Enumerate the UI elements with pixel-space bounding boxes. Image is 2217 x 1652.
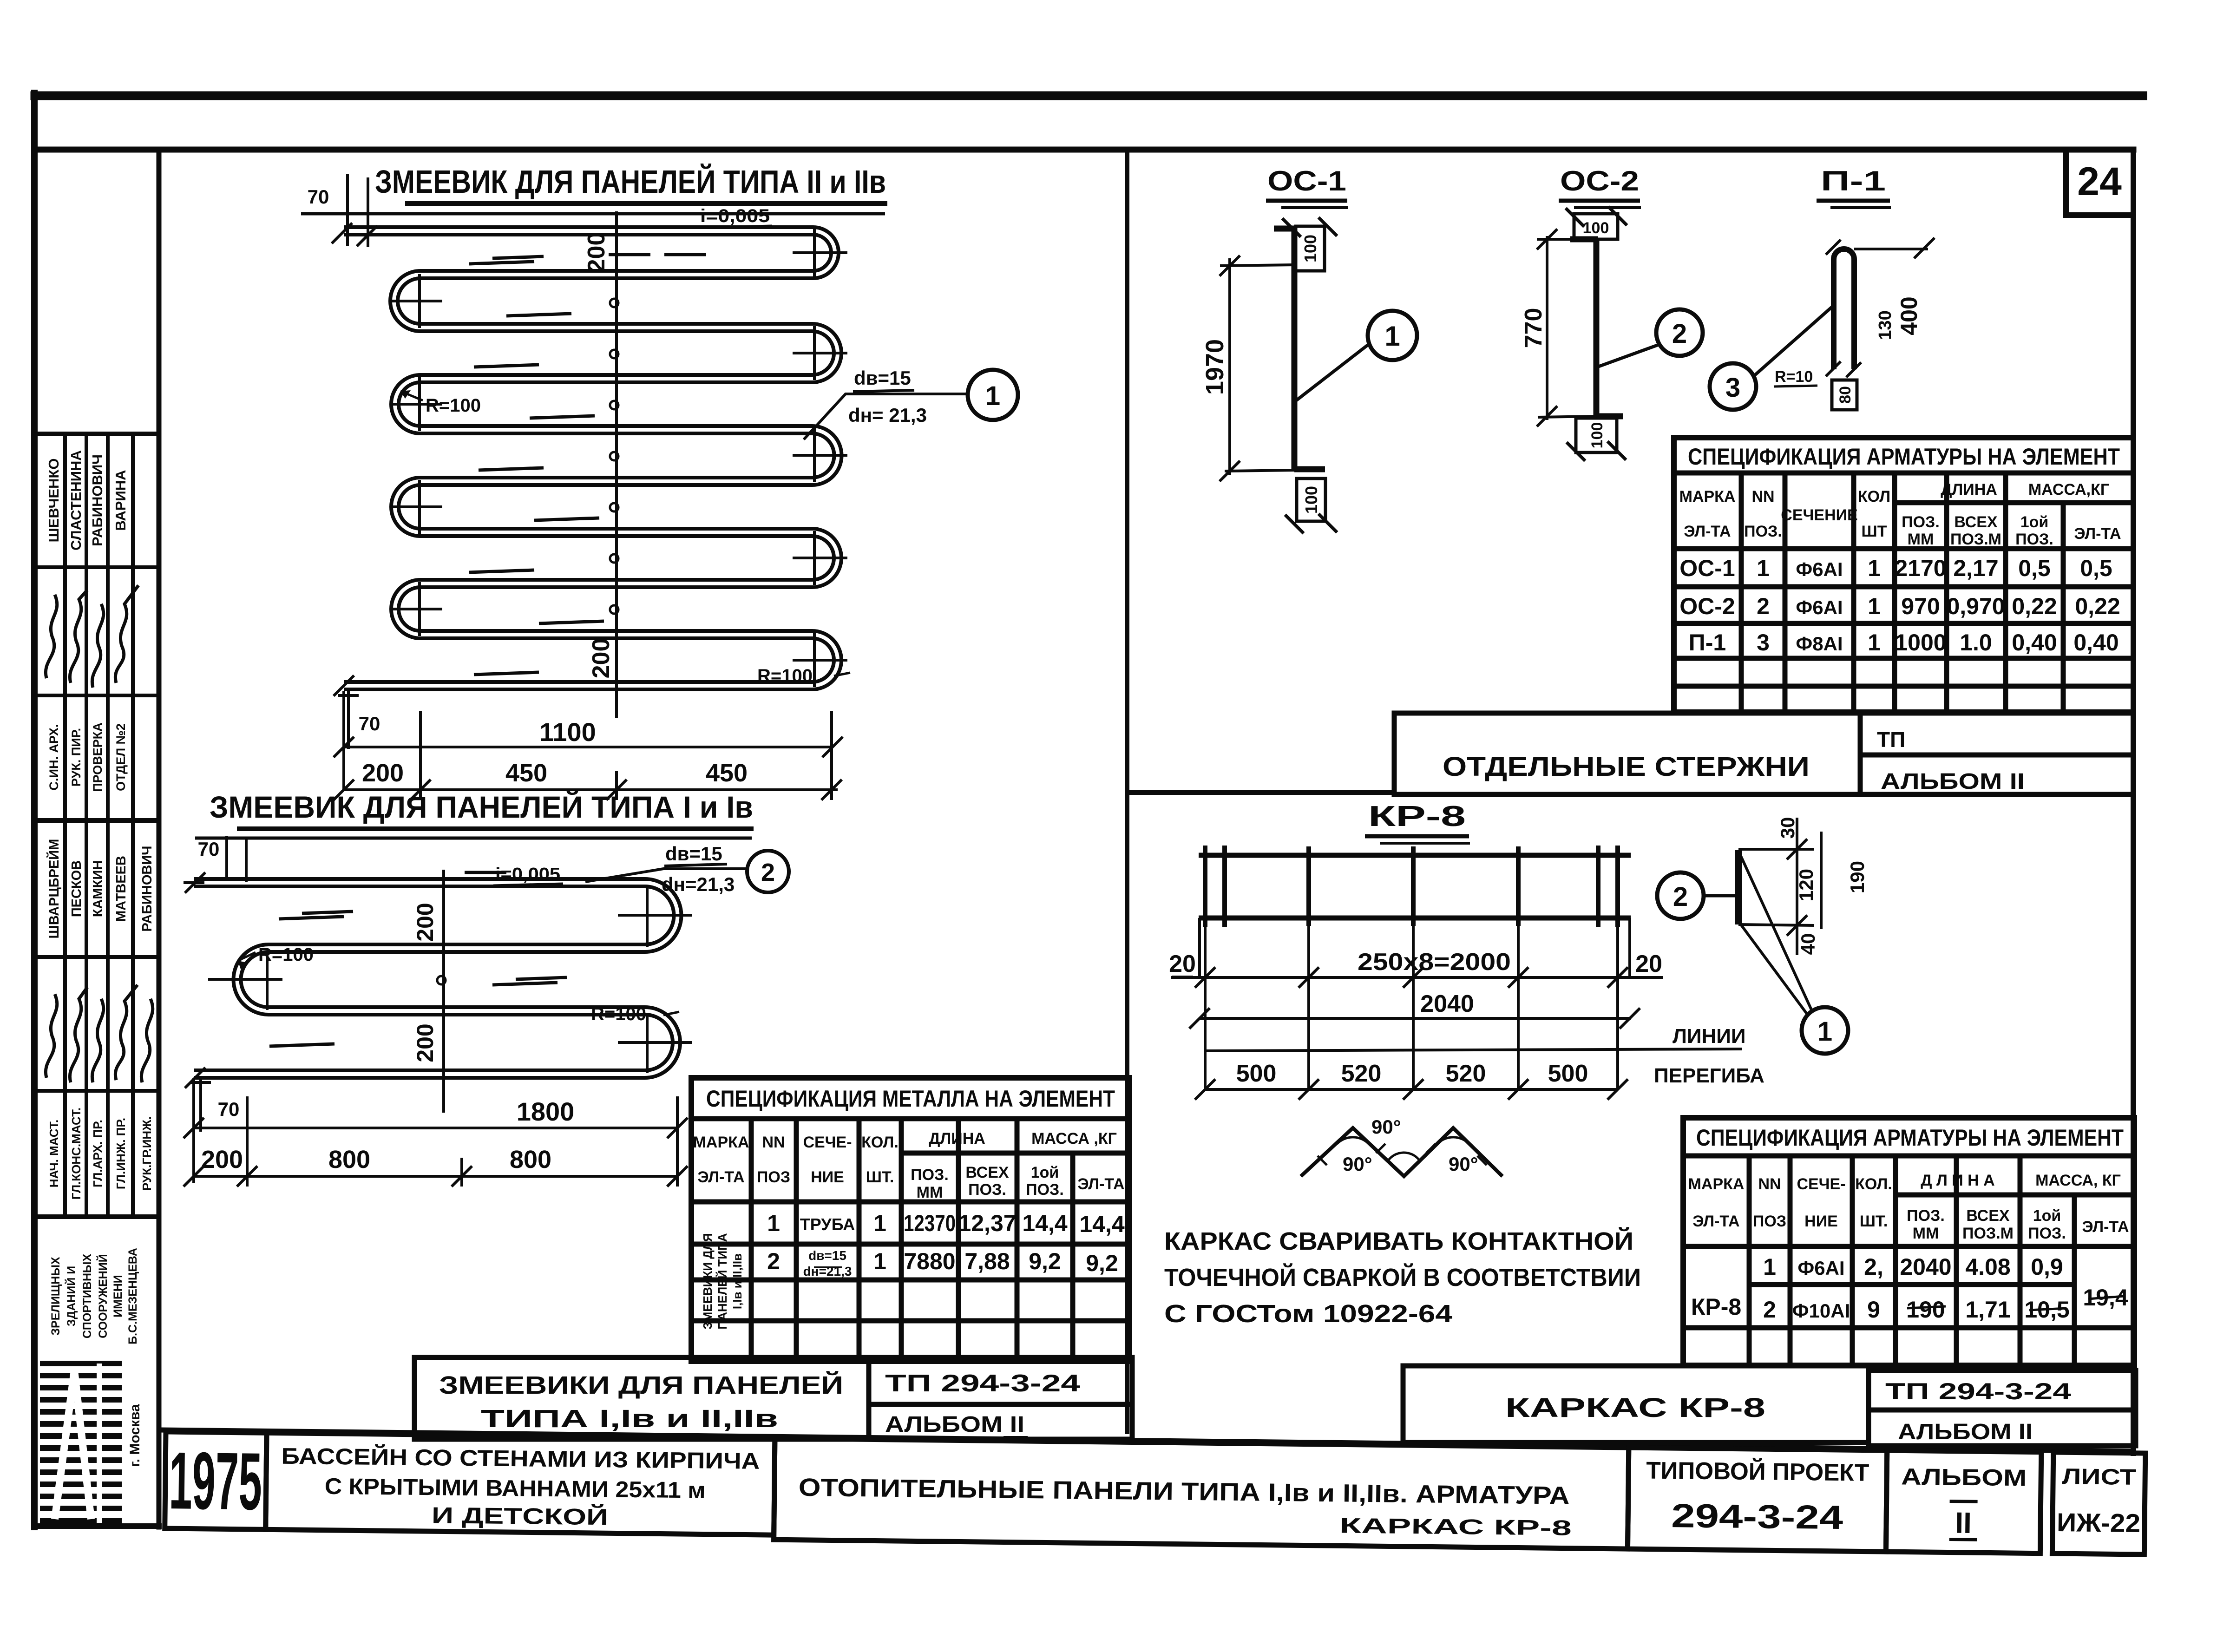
heating panels title box xyxy=(774,1438,1629,1549)
OC-2 dimension 770 xyxy=(1537,229,1596,426)
svg-text:КАРКАС КР-8: КАРКАС КР-8 xyxy=(1339,1513,1572,1540)
sheet left border xyxy=(31,93,38,1527)
svg-text:ПАНЕЛЕЙ ТИПА: ПАНЕЛЕЙ ТИПА xyxy=(715,1233,729,1329)
svg-text:С КРЫТЫМИ ВАННАМИ 25х11 м: С КРЫТЫМИ ВАННАМИ 25х11 м xyxy=(324,1474,706,1503)
svg-text:40: 40 xyxy=(1797,933,1819,955)
svg-text:R=100: R=100 xyxy=(258,944,314,965)
album box xyxy=(1886,1450,2041,1554)
svg-text:КАРКАС КР-8: КАРКАС КР-8 xyxy=(1505,1393,1765,1423)
svg-text:2: 2 xyxy=(767,1248,780,1274)
dimension line 1100 xyxy=(334,691,843,790)
svg-text:2: 2 xyxy=(1673,882,1688,912)
KR-8 dim line 2040 xyxy=(1189,1008,1640,1029)
svg-text:ИЖ-22: ИЖ-22 xyxy=(2057,1508,2141,1538)
institute logo hatched emblem xyxy=(40,1364,122,1521)
svg-text:МАТВЕЕВ: МАТВЕЕВ xyxy=(114,856,129,922)
sheet number box 24 xyxy=(2066,150,2133,215)
institute name rotated block xyxy=(49,1248,139,1344)
basin title box xyxy=(266,1433,775,1535)
KR-8 dim line 250x8=2000 with 20 20 xyxy=(1171,967,1663,988)
frame right border xyxy=(2131,150,2136,1453)
svg-text:МАРКА: МАРКА xyxy=(1688,1175,1745,1193)
KR-8 outline projection box xyxy=(1200,918,1630,1089)
svg-text:200: 200 xyxy=(201,1146,243,1173)
svg-text:КОЛ: КОЛ xyxy=(1858,488,1890,505)
svg-text:450: 450 xyxy=(505,759,547,787)
svg-text:90°: 90° xyxy=(1371,1116,1401,1138)
svg-text:2: 2 xyxy=(761,859,775,886)
svg-text:100: 100 xyxy=(1588,422,1606,449)
svg-text:0,22: 0,22 xyxy=(2075,593,2120,619)
svg-text:ММ: ММ xyxy=(917,1184,943,1201)
svg-text:ЭЛ-ТА: ЭЛ-ТА xyxy=(697,1168,744,1186)
svg-text:ЗМЕЕВИКИ ДЛЯ ПАНЕЛЕЙ: ЗМЕЕВИКИ ДЛЯ ПАНЕЛЕЙ xyxy=(439,1371,843,1399)
svg-text:ПОЗ.: ПОЗ. xyxy=(968,1181,1006,1199)
svg-text:НИЕ: НИЕ xyxy=(811,1168,844,1186)
svg-text:МАРКА: МАРКА xyxy=(693,1134,749,1151)
signature strip divider xyxy=(157,150,162,1527)
bottom title strip (tilted like the scan) xyxy=(165,1432,2145,1554)
svg-text:520: 520 xyxy=(1341,1060,1382,1087)
svg-text:СПЕЦИФИКАЦИЯ МЕТАЛЛА НА ЭЛЕМЕН: СПЕЦИФИКАЦИЯ МЕТАЛЛА НА ЭЛЕМЕНТ xyxy=(706,1086,1115,1112)
svg-text:2,17: 2,17 xyxy=(1953,555,1998,581)
svg-text:БАССЕЙН СО СТЕНАМИ ИЗ КИРПИЧА: БАССЕЙН СО СТЕНАМИ ИЗ КИРПИЧА xyxy=(281,1443,760,1474)
svg-text:770: 770 xyxy=(1520,308,1547,348)
svg-text:200: 200 xyxy=(588,638,615,679)
svg-text:ТОЧЕЧНОЙ СВАРКОЙ В СООТВЕТСТВИ: ТОЧЕЧНОЙ СВАРКОЙ В СООТВЕТСТВИИ xyxy=(1164,1263,1641,1291)
svg-text:1: 1 xyxy=(767,1210,780,1236)
svg-text:1: 1 xyxy=(1817,1016,1832,1047)
metal table data rows xyxy=(767,1210,1125,1278)
svg-text:9,2: 9,2 xyxy=(1029,1248,1061,1274)
svg-text:970: 970 xyxy=(1901,593,1940,619)
svg-text:СЕЧЕ-: СЕЧЕ- xyxy=(803,1134,852,1151)
svg-text:ПРОВЕРКА: ПРОВЕРКА xyxy=(91,722,105,792)
svg-text:12370: 12370 xyxy=(904,1210,956,1236)
svg-text:Ф10АI: Ф10АI xyxy=(1792,1300,1850,1322)
svg-text:ОТДЕЛЬНЫЕ СТЕРЖНИ: ОТДЕЛЬНЫЕ СТЕРЖНИ xyxy=(1443,752,1810,782)
svg-text:1: 1 xyxy=(985,381,1000,411)
svg-text:24: 24 xyxy=(2077,159,2122,204)
svg-text:ГЛ.КОНС.МАСТ.: ГЛ.КОНС.МАСТ. xyxy=(69,1108,83,1200)
svg-text:ПОЗ.: ПОЗ. xyxy=(2028,1225,2066,1242)
KR-8 detail callout circle 2 xyxy=(1703,894,1737,898)
svg-text:РУК.ГР.ИНЖ.: РУК.ГР.ИНЖ. xyxy=(140,1116,154,1191)
svg-text:70: 70 xyxy=(308,186,329,208)
svg-text:ВАРИНА: ВАРИНА xyxy=(112,470,129,531)
welding note text xyxy=(1164,1227,1641,1328)
svg-text:АЛЬБОМ II: АЛЬБОМ II xyxy=(1898,1420,2033,1444)
svg-text:РУК. ПИР.: РУК. ПИР. xyxy=(69,728,83,787)
svg-text:R=10: R=10 xyxy=(1775,368,1813,386)
svg-text:ММ: ММ xyxy=(1908,531,1934,548)
svg-text:1,71: 1,71 xyxy=(1965,1297,2010,1323)
KR-8 dim line 500 520 520 500 xyxy=(1195,1049,1742,1100)
svg-text:500: 500 xyxy=(1236,1060,1277,1087)
svg-text:ОТДЕЛ №2: ОТДЕЛ №2 xyxy=(114,723,128,791)
P-1 callout circle 3 xyxy=(1752,307,1832,377)
svg-text:КР-8: КР-8 xyxy=(1691,1294,1741,1320)
svg-text:ПОЗ.М: ПОЗ.М xyxy=(1950,531,2001,548)
svg-text:0,22: 0,22 xyxy=(2012,593,2057,619)
svg-text:АЛЬБОМ II: АЛЬБОМ II xyxy=(885,1412,1024,1437)
svg-text:250х8=2000: 250х8=2000 xyxy=(1358,949,1511,976)
svg-text:1.0: 1.0 xyxy=(1960,629,1992,656)
svg-text:II: II xyxy=(1955,1506,1972,1540)
svg-text:7880: 7880 xyxy=(904,1248,955,1274)
svg-text:ТП 294-3-24: ТП 294-3-24 xyxy=(1885,1378,2071,1404)
KR-8 frame long bar 2 xyxy=(1199,916,1631,921)
svg-text:1000: 1000 xyxy=(1895,629,1946,656)
svg-text:80: 80 xyxy=(1837,386,1854,404)
svg-text:ПОЗ.М: ПОЗ.М xyxy=(1962,1225,2014,1242)
svg-text:ПЕСКОВ: ПЕСКОВ xyxy=(69,860,84,917)
svg-text:ММ: ММ xyxy=(1913,1225,1939,1242)
signature scribbles block 2 xyxy=(46,585,138,688)
typovoy proekt box xyxy=(1627,1448,1887,1552)
svg-text:1ой: 1ой xyxy=(1031,1164,1059,1181)
svg-text:dн= 21,3: dн= 21,3 xyxy=(848,404,927,426)
svg-text:70: 70 xyxy=(359,713,380,734)
svg-text:1: 1 xyxy=(873,1248,886,1274)
svg-text:1: 1 xyxy=(1868,555,1881,581)
svg-text:СПЕЦИФИКАЦИЯ АРМАТУРЫ НА ЭЛЕМЕ: СПЕЦИФИКАЦИЯ АРМАТУРЫ НА ЭЛЕМЕНТ xyxy=(1688,444,2120,470)
svg-text:30: 30 xyxy=(1777,817,1798,839)
svg-text:С ГОСТом 10922-64: С ГОСТом 10922-64 xyxy=(1164,1300,1452,1328)
KR-8 cross rods xyxy=(1205,846,1618,927)
svg-text:20: 20 xyxy=(1169,951,1196,977)
svg-text:9,2: 9,2 xyxy=(1086,1250,1118,1276)
svg-text:130: 130 xyxy=(1876,310,1895,340)
svg-text:И ДЕТСКОЙ: И ДЕТСКОЙ xyxy=(432,1502,609,1530)
svg-text:СЕЧЕ-: СЕЧЕ- xyxy=(1797,1175,1845,1193)
svg-text:СЕЧЕНИЕ: СЕЧЕНИЕ xyxy=(1781,506,1857,524)
svg-text:ПЕРЕГИБА: ПЕРЕГИБА xyxy=(1654,1064,1764,1087)
svg-text:2040: 2040 xyxy=(1900,1254,1951,1280)
individual rods title box xyxy=(1394,713,2133,794)
svg-text:МАССА, КГ: МАССА, КГ xyxy=(2035,1172,2121,1189)
svg-text:ВСЕХ: ВСЕХ xyxy=(965,1164,1009,1181)
svg-text:800: 800 xyxy=(328,1146,370,1173)
svg-text:МАССА ,КГ: МАССА ,КГ xyxy=(1031,1130,1117,1147)
svg-text:Д Л И Н А: Д Л И Н А xyxy=(1921,1172,1994,1189)
svg-text:NN: NN xyxy=(1758,1175,1781,1193)
signature strip rotated names block 1 xyxy=(46,450,129,551)
svg-text:ЗМЕЕВИКИ ДЛЯ: ЗМЕЕВИКИ ДЛЯ xyxy=(701,1233,715,1329)
serpentine II pipe (double wall) xyxy=(344,231,838,686)
inner frame top line xyxy=(34,147,2133,153)
svg-text:ПОЗ: ПОЗ xyxy=(1753,1213,1786,1230)
svg-text:3: 3 xyxy=(1757,629,1770,656)
svg-text:400: 400 xyxy=(1896,296,1922,335)
P-1 80 box label xyxy=(1832,380,1857,410)
svg-text:294-3-24: 294-3-24 xyxy=(1671,1497,1843,1536)
signature strip tables xyxy=(34,434,159,1217)
svg-text:1: 1 xyxy=(1384,321,1400,352)
svg-text:dв=15: dв=15 xyxy=(808,1248,846,1263)
svg-text:0,9: 0,9 xyxy=(2031,1254,2063,1280)
svg-text:П-1: П-1 xyxy=(1821,165,1886,197)
svg-text:1ой: 1ой xyxy=(2020,513,2049,531)
svg-text:ИМЕНИ: ИМЕНИ xyxy=(112,1275,125,1318)
svg-text:2: 2 xyxy=(1763,1297,1776,1323)
svg-text:ЗМЕЕВИК ДЛЯ ПАНЕЛЕЙ ТИПА I: ЗМЕЕВИК ДЛЯ ПАНЕЛЕЙ ТИПА I и Iв xyxy=(210,789,753,824)
OC-1 callout circle 1 xyxy=(1296,343,1371,400)
svg-text:НАЧ. МАСТ.: НАЧ. МАСТ. xyxy=(47,1120,61,1187)
svg-text:ГЛ.АРХ. ПР.: ГЛ.АРХ. ПР. xyxy=(91,1120,105,1187)
KR-8 frame long bar 1 xyxy=(1199,853,1631,858)
svg-text:2: 2 xyxy=(1757,593,1770,619)
svg-text:КОЛ.: КОЛ. xyxy=(1855,1175,1892,1193)
svg-text:1: 1 xyxy=(1757,555,1770,581)
svg-text:450: 450 xyxy=(706,759,748,787)
svg-text:ДЛИНА: ДЛИНА xyxy=(929,1130,985,1147)
svg-text:NN: NN xyxy=(1751,488,1774,505)
svg-text:КАРКАС СВАРИВАТЬ КОНТАКТНОЙ: КАРКАС СВАРИВАТЬ КОНТАКТНОЙ xyxy=(1164,1227,1633,1255)
svg-text:190: 190 xyxy=(1846,861,1868,893)
svg-text:4.08: 4.08 xyxy=(1965,1254,2010,1280)
svg-text:ПОЗ.: ПОЗ. xyxy=(1744,523,1782,540)
armature specification table (top right) xyxy=(1674,438,2133,712)
svg-text:МАРКА: МАРКА xyxy=(1679,488,1736,505)
OC-1 length dimension 1970 xyxy=(1220,256,1296,481)
svg-text:70: 70 xyxy=(198,838,220,860)
svg-text:I,Iв и II,IIв: I,Iв и II,IIв xyxy=(730,1253,744,1309)
svg-text:ЭЛ-ТА: ЭЛ-ТА xyxy=(2082,1218,2129,1236)
svg-text:0,40: 0,40 xyxy=(2073,629,2119,656)
left title box: serpentines for panels xyxy=(414,1357,1132,1439)
svg-text:ЭЛ-ТА: ЭЛ-ТА xyxy=(1077,1175,1124,1193)
svg-text:200: 200 xyxy=(362,759,404,787)
svg-text:2: 2 xyxy=(1672,319,1687,349)
sheet outer top border xyxy=(35,92,2143,100)
svg-text:ОС-1: ОС-1 xyxy=(1679,555,1735,581)
svg-text:90°: 90° xyxy=(1343,1153,1372,1175)
svg-text:dн=21,3: dн=21,3 xyxy=(803,1264,852,1278)
svg-text:dн=21,3: dн=21,3 xyxy=(662,873,735,895)
svg-text:ТП: ТП xyxy=(1877,728,1905,752)
svg-text:R=100: R=100 xyxy=(591,1004,646,1024)
svg-text:9: 9 xyxy=(1867,1297,1880,1323)
element OC-1 bar drawing xyxy=(1274,227,1325,470)
svg-text:НИЕ: НИЕ xyxy=(1804,1213,1838,1230)
svg-text:1: 1 xyxy=(1763,1254,1776,1280)
serpentine I bend axis crosses xyxy=(208,886,692,1073)
svg-text:ТРУБА: ТРУБА xyxy=(800,1215,855,1234)
svg-text:ОС-2: ОС-2 xyxy=(1560,165,1639,197)
svg-text:ШВАРЦБРЕЙМ: ШВАРЦБРЕЙМ xyxy=(46,839,62,939)
serpentine I center dimension line xyxy=(442,870,445,1113)
signature strip rotated titles block 6 xyxy=(47,1108,154,1200)
svg-text:ПОЗ.: ПОЗ. xyxy=(1907,1207,1945,1225)
svg-text:СООРУЖЕНИЙ: СООРУЖЕНИЙ xyxy=(96,1254,110,1338)
svg-text:2040: 2040 xyxy=(1420,990,1474,1017)
svg-text:1975: 1975 xyxy=(169,1436,262,1527)
svg-text:Ф8АI: Ф8АI xyxy=(1796,633,1843,655)
svg-text:100: 100 xyxy=(1583,219,1609,237)
svg-text:14,4: 14,4 xyxy=(1079,1211,1125,1237)
element OC-2 z-bar drawing xyxy=(1570,239,1623,417)
svg-text:г. Москва: г. Москва xyxy=(127,1404,143,1467)
svg-text:0,5: 0,5 xyxy=(2018,555,2051,581)
svg-text:70: 70 xyxy=(218,1098,240,1120)
KR-8 detail callout circle 1 xyxy=(1802,1007,1848,1054)
svg-text:ЭЛ-ТА: ЭЛ-ТА xyxy=(1684,523,1731,540)
svg-text:1: 1 xyxy=(873,1210,886,1236)
svg-text:ЛИСТ: ЛИСТ xyxy=(2062,1464,2137,1490)
KR-8 armature specification table xyxy=(1683,1118,2134,1365)
svg-text:200: 200 xyxy=(412,903,438,941)
svg-text:1: 1 xyxy=(1868,629,1881,656)
svg-text:i=0,005: i=0,005 xyxy=(700,206,770,226)
svg-text:800: 800 xyxy=(510,1146,551,1173)
svg-text:ШТ.: ШТ. xyxy=(866,1168,894,1186)
OC-section bottom divider xyxy=(1127,790,1394,795)
svg-text:СПЕЦИФИКАЦИЯ АРМАТУРЫ НА ЭЛЕМЕ: СПЕЦИФИКАЦИЯ АРМАТУРЫ НА ЭЛЕМЕНТ xyxy=(1696,1125,2124,1151)
armature table data rows xyxy=(1679,555,2120,656)
KR-8 table data rows xyxy=(1691,1254,2128,1323)
svg-text:РАБИНОВИЧ: РАБИНОВИЧ xyxy=(140,846,155,931)
svg-text:0,5: 0,5 xyxy=(2080,555,2112,581)
svg-text:14,4: 14,4 xyxy=(1022,1210,1068,1236)
signature strip rotated titles block 3 xyxy=(47,722,128,792)
list box xyxy=(2052,1452,2145,1554)
dimension line 200 450 450 xyxy=(334,711,842,800)
svg-text:ЗРЕЛИЩНЫХ: ЗРЕЛИЩНЫХ xyxy=(49,1257,62,1336)
svg-text:ТИПА I,Iв и II,IIв: ТИПА I,Iв и II,IIв xyxy=(481,1405,778,1433)
svg-text:ПОЗ.: ПОЗ. xyxy=(1026,1181,1064,1199)
svg-text:ТП 294-3-24: ТП 294-3-24 xyxy=(885,1370,1080,1397)
svg-text:120: 120 xyxy=(1795,869,1817,901)
serpentine I pipe (double wall) xyxy=(194,883,678,1074)
svg-text:ТИПОВОЙ ПРОЕКТ: ТИПОВОЙ ПРОЕКТ xyxy=(1646,1456,1869,1486)
svg-text:ЭЛ-ТА: ЭЛ-ТА xyxy=(1692,1213,1739,1230)
svg-text:ШТ: ШТ xyxy=(1862,523,1887,540)
svg-text:dв=15: dв=15 xyxy=(854,367,911,389)
svg-text:ВСЕХ: ВСЕХ xyxy=(1954,513,1997,531)
svg-text:СПОРТИВНЫХ: СПОРТИВНЫХ xyxy=(81,1254,94,1339)
central vertical divider xyxy=(1125,150,1129,1432)
svg-text:Ф6АI: Ф6АI xyxy=(1796,597,1843,618)
svg-text:7,88: 7,88 xyxy=(964,1248,1010,1274)
svg-text:СЛАСТЕНИНА: СЛАСТЕНИНА xyxy=(68,450,84,551)
serpentine II weld tick marks xyxy=(469,255,706,675)
svg-text:100: 100 xyxy=(1301,235,1320,262)
svg-text:ПОЗ.: ПОЗ. xyxy=(2015,531,2053,548)
karkas KR-8 title box xyxy=(1403,1366,2136,1446)
svg-text:NN: NN xyxy=(762,1134,785,1151)
basin box text xyxy=(281,1443,760,1532)
svg-text:90°: 90° xyxy=(1449,1153,1478,1175)
svg-text:R=100: R=100 xyxy=(426,395,481,416)
svg-text:ПОЗ.: ПОЗ. xyxy=(911,1166,949,1184)
frame bottom line xyxy=(160,1430,2133,1451)
serpentine I weld ticks xyxy=(269,872,567,1046)
svg-text:КОЛ.: КОЛ. xyxy=(861,1134,899,1151)
svg-text:ПОЗ: ПОЗ xyxy=(757,1168,790,1186)
svg-text:ГЛ.ИНЖ. ПР.: ГЛ.ИНЖ. ПР. xyxy=(114,1118,128,1189)
svg-text:i=0,005: i=0,005 xyxy=(495,865,560,884)
element P-1 hairpin drawing xyxy=(1834,249,1854,369)
year box 1975 xyxy=(165,1432,267,1529)
signature scribbles block 5 xyxy=(46,985,152,1082)
svg-text:12,37: 12,37 xyxy=(958,1210,1016,1236)
serpentine II center dimension line xyxy=(615,211,618,718)
svg-text:1: 1 xyxy=(1868,593,1881,619)
svg-text:100: 100 xyxy=(1302,486,1321,514)
svg-text:2170: 2170 xyxy=(1895,555,1946,581)
svg-text:ВСЕХ: ВСЕХ xyxy=(1966,1207,2009,1225)
svg-text:ОС-2: ОС-2 xyxy=(1679,593,1735,619)
dimension line 1800 xyxy=(184,1078,688,1183)
svg-text:2,: 2, xyxy=(1864,1254,1883,1280)
svg-text:dв=15: dв=15 xyxy=(665,843,722,865)
metal table rotated mark text xyxy=(701,1233,744,1329)
svg-text:АЛЬБОМ: АЛЬБОМ xyxy=(1901,1463,2027,1491)
svg-text:ЭЛ-ТА: ЭЛ-ТА xyxy=(2074,525,2121,543)
svg-text:АЛЬБОМ II: АЛЬБОМ II xyxy=(1881,769,2025,794)
svg-text:ШЕВЧЕНКО: ШЕВЧЕНКО xyxy=(46,459,62,543)
svg-text:3: 3 xyxy=(1725,373,1740,403)
svg-text:200: 200 xyxy=(412,1023,438,1062)
svg-text:С.ИН. АРХ.: С.ИН. АРХ. xyxy=(47,724,61,791)
svg-text:R=100: R=100 xyxy=(757,666,813,686)
svg-text:ЗМЕЕВИК ДЛЯ ПАНЕЛЕЙ ТИПА II: ЗМЕЕВИК ДЛЯ ПАНЕЛЕЙ ТИПА II и IIв xyxy=(375,163,886,200)
metal specification table xyxy=(691,1078,1129,1361)
svg-text:КАМКИН: КАМКИН xyxy=(91,860,105,917)
serpentine II bend axis crosses xyxy=(391,228,847,687)
svg-text:ДЛИНА: ДЛИНА xyxy=(1941,481,1997,498)
KR-8 end detail with dims 30 120 190 40 xyxy=(1735,850,1742,924)
svg-text:П-1: П-1 xyxy=(1689,629,1726,656)
svg-text:ПОЗ.: ПОЗ. xyxy=(1902,513,1940,531)
svg-text:ШТ.: ШТ. xyxy=(1860,1213,1888,1230)
svg-text:190: 190 xyxy=(1906,1297,1945,1323)
bend zigzag diagram with 90 deg angles xyxy=(1301,1128,1502,1176)
svg-text:0,970: 0,970 xyxy=(1947,593,2005,619)
svg-text:ЗДАНИЙ И: ЗДАНИЙ И xyxy=(64,1266,78,1326)
dimension line 200 800 800 xyxy=(184,1096,688,1187)
svg-text:Ф6АI: Ф6АI xyxy=(1796,558,1843,580)
svg-text:РАБИНОВИЧ: РАБИНОВИЧ xyxy=(89,454,105,546)
svg-text:Б.С.МЕЗЕНЦЕВА: Б.С.МЕЗЕНЦЕВА xyxy=(126,1248,139,1344)
svg-text:МАССА,КГ: МАССА,КГ xyxy=(2028,481,2109,498)
svg-text:ЛИНИИ: ЛИНИИ xyxy=(1673,1025,1746,1048)
svg-text:ОС-1: ОС-1 xyxy=(1267,165,1346,197)
svg-text:0,40: 0,40 xyxy=(2012,629,2057,656)
svg-text:1100: 1100 xyxy=(539,717,596,747)
svg-text:1ой: 1ой xyxy=(2033,1207,2061,1225)
svg-text:500: 500 xyxy=(1548,1060,1588,1087)
svg-text:КР-8: КР-8 xyxy=(1368,800,1466,833)
svg-text:1970: 1970 xyxy=(1201,339,1229,395)
svg-text:520: 520 xyxy=(1446,1060,1486,1087)
signature strip rotated names block 4 xyxy=(46,839,155,939)
svg-text:200: 200 xyxy=(583,232,610,273)
svg-text:Ф6АI: Ф6АI xyxy=(1797,1257,1844,1279)
svg-text:20: 20 xyxy=(1635,951,1662,977)
svg-text:1800: 1800 xyxy=(517,1097,575,1126)
OC-2 callout circle 2 xyxy=(1597,345,1659,367)
